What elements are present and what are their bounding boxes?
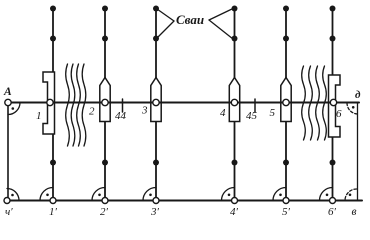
hinge node 5' [283,198,289,204]
member mark tick 45 [254,99,256,112]
svg-text:2′: 2′ [100,206,109,218]
svg-text:45: 45 [246,110,258,122]
pile P2 upper joint dot [102,36,108,42]
pile P4 lower joint dot [232,160,238,166]
pile P2 vertical line [104,8,106,200]
pile symbol at node 2 [100,78,110,122]
svg-text:4: 4 [220,107,226,119]
angle dot at node v [349,194,352,197]
svg-text:1: 1 [36,110,42,122]
pile symbol at node 3 [151,78,161,122]
pile symbol at node 4 [229,78,239,122]
fixity arc at node 3' [143,188,156,201]
svg-text:6: 6 [336,108,342,120]
svg-text:A: A [3,86,12,98]
pile P5 vertical line [285,8,287,200]
pile P2 top joint dot [102,6,108,12]
fixity arc at node A [8,103,20,115]
hinge node A [5,99,11,105]
angle dot at node 5' [279,194,282,197]
break (wavy) lines between nodes 1 and 2 [66,64,86,146]
pile P6 vertical line [332,8,334,200]
member mark tick 44 [122,99,124,112]
leader line from label to pile P3 lower dot [157,21,174,38]
pile P5 lower joint dot [283,160,289,166]
fixity arc at node 1' [40,188,53,201]
hinge node 4 [231,99,237,105]
fixity arc at node 2' [92,188,105,201]
svg-text:3′: 3′ [150,206,160,218]
svg-text:44: 44 [115,110,127,122]
pile P1 lower joint dot [50,160,56,166]
pile P6 upper joint dot [330,36,336,42]
pile P4 top joint dot [232,6,238,12]
pile P4 vertical line [234,8,236,200]
hinge node 3 [153,99,159,105]
break (wavy) lines between nodes 5 and 6 [302,66,327,140]
pile symbol at node 5 [281,78,291,122]
fixity arc at node 6' [320,188,333,201]
fixity arc at node 4' [222,188,235,201]
angle dot at node A' [11,194,14,197]
svg-text:1′: 1′ [49,206,58,218]
pile P5 top joint dot [283,6,289,12]
pile P6 lower joint dot [330,160,336,166]
sheet-pile symbol at node 6 [329,75,341,137]
pile P4 upper joint dot [232,36,238,42]
pile P3 top joint dot [153,6,159,12]
hinge node A' [4,198,10,204]
svg-text:6′: 6′ [328,206,337,218]
hinge node 2' [102,198,108,204]
angle dot at node d [352,106,355,109]
pile P3 upper joint dot [153,36,159,42]
hinge node 3' [153,198,159,204]
svg-text:5′: 5′ [282,206,291,218]
svg-text:4′: 4′ [230,206,239,218]
sheet-pile symbol at node 1 [43,72,55,134]
hinge node 6 [330,99,336,105]
svg-text:2: 2 [89,106,95,118]
dashed fixity arc at node d (top right) [347,103,358,114]
hinge node 1' [50,198,56,204]
svg-text:д: д [355,89,361,101]
hinge node 4' [232,198,238,204]
angle dot at node A [12,107,15,110]
dashed fixity arc at node v (bottom right) [345,189,357,201]
pile P1 upper joint dot [50,36,56,42]
fixity arc at node A' [7,189,19,201]
angle dot at node 6' [326,194,329,197]
leader line from label to pile P4 top [209,9,233,21]
hinge node 1 [47,99,53,105]
hinge node 5 [283,99,289,105]
leader line from label to pile P4 lower dot [209,20,233,39]
left edge member A-A' [7,103,9,201]
svg-text:Сваи: Сваи [176,12,204,27]
angle dot at node 4' [228,194,231,197]
svg-text:ч′: ч′ [5,206,13,218]
pile P3 lower joint dot [153,160,159,166]
angle dot at node 3' [149,194,152,197]
fixity arc at node 5' [273,188,286,201]
right edge member [357,103,359,201]
angle dot at node 1' [46,194,49,197]
pile P1 top joint dot [50,6,56,12]
pile P2 lower joint dot [102,160,108,166]
svg-text:в: в [352,206,357,218]
pile P6 top joint dot [330,6,336,12]
pile P1 vertical line [52,8,54,200]
pile P5 upper joint dot [283,36,289,42]
angle dot at node 2' [98,194,101,197]
pile P3 vertical line [155,8,157,200]
hinge node 6' [330,198,336,204]
svg-text:3: 3 [141,105,148,117]
svg-text:5: 5 [270,107,276,119]
leader line from label to pile P3 top [157,9,174,21]
ground base line (bottom horizontal line) [5,200,362,202]
hinge node 2 [102,99,108,105]
grillage beam (main horizontal line) [8,102,359,104]
